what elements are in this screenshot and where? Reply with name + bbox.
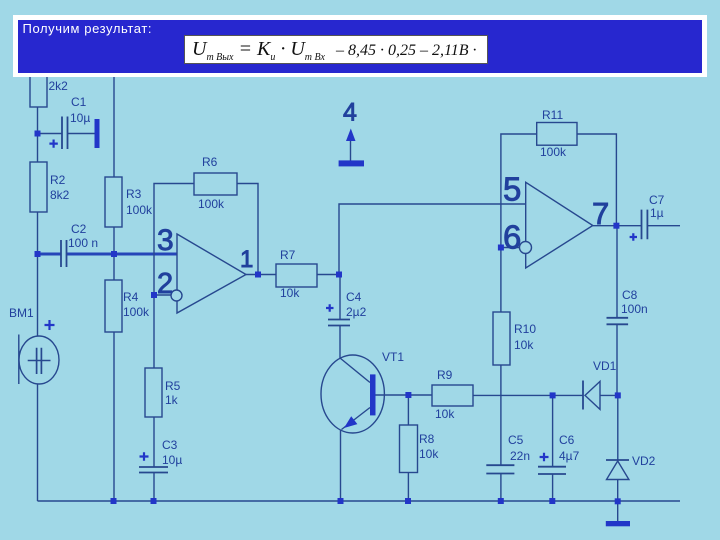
svg-text:C3: C3 <box>162 438 178 452</box>
svg-text:C8: C8 <box>622 288 638 302</box>
capacitor C8 <box>607 318 629 325</box>
wire emitter down <box>340 430 342 501</box>
VT1 emitter arrow <box>344 416 357 428</box>
svg-text:R6: R6 <box>202 155 218 169</box>
svg-text:1: 1 <box>240 246 253 273</box>
svg-text:2: 2 <box>157 268 173 300</box>
wire column x114 <box>113 77 115 501</box>
wire R9 right to VD1 <box>473 394 583 396</box>
wire base to R9 <box>376 394 433 396</box>
svg-text:VD2: VD2 <box>632 454 656 468</box>
node dot C6/VD1 <box>550 392 556 398</box>
node dot R1/C1 <box>35 131 41 137</box>
svg-text:2µ2: 2µ2 <box>346 305 367 319</box>
resistor R9 <box>432 385 473 406</box>
wire pin4 stem <box>350 139 352 161</box>
svg-text:10k: 10k <box>419 447 439 461</box>
svg-text:4µ7: 4µ7 <box>559 449 580 463</box>
transistor VT1 base bar <box>370 374 376 415</box>
rail dot C3 <box>151 498 157 504</box>
rail dot R8 <box>405 498 411 504</box>
svg-text:5: 5 <box>503 171 521 208</box>
svg-text:C4: C4 <box>346 290 362 304</box>
node dot output1 <box>255 272 261 278</box>
svg-text:100n: 100n <box>621 302 648 316</box>
wire opamp1 output <box>246 274 339 276</box>
wire pin2 <box>154 294 171 296</box>
svg-text:VD1: VD1 <box>593 359 617 373</box>
svg-text:100k: 100k <box>198 197 225 211</box>
svg-text:10µ: 10µ <box>70 111 90 125</box>
rail dot emitter <box>338 498 344 504</box>
ground bar <box>606 521 630 526</box>
wire feedback node x154 <box>154 184 194 502</box>
svg-text:8k2: 8k2 <box>50 188 70 202</box>
capacitor C2 <box>61 240 67 267</box>
rail dot C5 <box>498 498 504 504</box>
wire pin5 <box>339 204 526 275</box>
node dot R3/C2 <box>111 251 117 257</box>
op-amp DA1.1 <box>171 234 246 313</box>
node dot R7 right <box>336 272 342 278</box>
svg-text:4: 4 <box>343 99 357 127</box>
svg-text:C7: C7 <box>649 193 665 207</box>
resistor R10 <box>493 312 510 365</box>
capacitor C6 <box>538 467 566 474</box>
wire pin6 <box>501 247 519 249</box>
capacitor C7 <box>642 210 648 240</box>
svg-text:100k: 100k <box>123 305 150 319</box>
resistor R7 <box>276 264 317 287</box>
transistor VT1 <box>321 355 384 433</box>
plus BM1 <box>45 320 55 330</box>
resistor R3 <box>105 177 122 227</box>
resistor R2 <box>30 162 47 212</box>
svg-text:R4: R4 <box>123 290 139 304</box>
svg-text:VT1: VT1 <box>382 350 404 364</box>
svg-text:R3: R3 <box>126 187 142 201</box>
svg-text:10k: 10k <box>435 407 455 421</box>
svg-text:R7: R7 <box>280 248 296 262</box>
svg-text:100 n: 100 n <box>68 236 98 250</box>
diode VD2 <box>606 460 629 480</box>
svg-text:100k: 100k <box>540 145 567 159</box>
resistor R8 <box>400 425 418 473</box>
resistor R6 <box>194 173 237 195</box>
rail dot C6 <box>549 498 555 504</box>
node dot VD1/VD2 <box>615 392 621 398</box>
svg-text:10k: 10k <box>514 338 534 352</box>
microphone BM1 <box>19 335 59 385</box>
node dot pin6 <box>498 245 504 251</box>
rail dot ground <box>615 498 621 504</box>
rail dot R4 <box>111 498 117 504</box>
svg-text:R11: R11 <box>542 108 563 122</box>
wire VD1 to node <box>600 394 618 396</box>
svg-text:C6: C6 <box>559 433 575 447</box>
svg-text:2k2: 2k2 <box>49 79 69 93</box>
svg-text:C1: C1 <box>71 95 87 109</box>
svg-text:R5: R5 <box>165 379 181 393</box>
plus C6 <box>540 453 549 461</box>
wire C2 to pin3 <box>36 253 177 256</box>
node dot base/R8 <box>405 392 411 398</box>
resistor R1 <box>30 74 47 107</box>
resistor R11 <box>537 123 577 146</box>
op-amp DA1.2 <box>520 182 593 268</box>
svg-text:6: 6 <box>503 219 521 256</box>
svg-text:C5: C5 <box>508 433 524 447</box>
formula box <box>184 35 488 64</box>
capacitor C5 <box>486 465 514 473</box>
capacitor C3 <box>139 467 168 473</box>
power pin4 bar <box>339 160 364 166</box>
svg-text:100k: 100k <box>126 203 153 217</box>
capacitor C4 <box>328 320 350 326</box>
plus C7 <box>630 233 637 240</box>
svg-text:C2: C2 <box>71 222 87 236</box>
wire C1 branch <box>38 133 95 135</box>
svg-text:R9: R9 <box>437 368 453 382</box>
svg-text:7: 7 <box>592 196 609 231</box>
banner <box>13 15 707 77</box>
plus C4 <box>326 304 334 311</box>
svg-text:10µ: 10µ <box>162 453 182 467</box>
plus C1 <box>49 140 57 148</box>
wire R11 left and pin6 column <box>501 134 537 501</box>
svg-text:1µ: 1µ <box>650 206 664 220</box>
wire C6 column <box>552 395 554 501</box>
svg-text:BM1: BM1 <box>9 306 34 320</box>
wire R6 right to output <box>237 184 258 275</box>
capacitor C1 <box>62 117 68 150</box>
svg-text:R10: R10 <box>514 322 536 336</box>
svg-text:1k: 1k <box>165 393 179 407</box>
resistor R5 <box>145 368 162 417</box>
svg-text:22n: 22n <box>510 449 530 463</box>
resistor R4 <box>105 280 122 332</box>
svg-text:10k: 10k <box>280 286 300 300</box>
wire R8 column <box>407 395 409 501</box>
wire opamp2 output <box>593 225 680 227</box>
wire C4 column <box>339 275 341 359</box>
power pin4 arrow <box>346 129 356 142</box>
wire bottom rail <box>38 500 681 502</box>
svg-text:R2: R2 <box>50 173 66 187</box>
plus C3 <box>140 452 149 460</box>
svg-text:3: 3 <box>157 224 174 257</box>
node dot pin2 <box>151 292 157 298</box>
node dot R2/C2 <box>35 251 41 257</box>
C1 thick plate bar <box>95 119 100 148</box>
wire C8 VD2 column <box>616 226 619 521</box>
node dot output2 <box>613 223 619 229</box>
wire left column x37.5 <box>37 107 39 501</box>
diode VD1 <box>583 381 600 410</box>
svg-text:R8: R8 <box>419 432 435 446</box>
wire R11 right <box>577 134 616 226</box>
